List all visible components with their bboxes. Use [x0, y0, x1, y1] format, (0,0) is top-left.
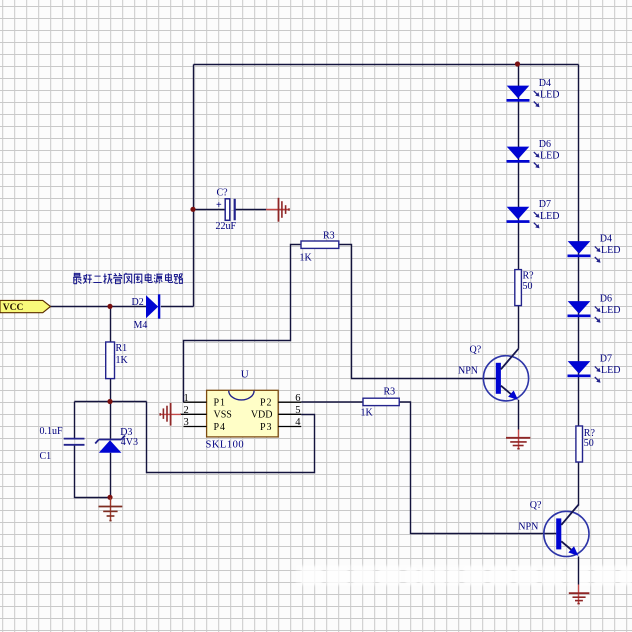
- capacitor C1 0.1uF: [40, 426, 85, 462]
- LED D6 (left string): [507, 139, 560, 168]
- svg-text:NPN: NPN: [518, 522, 538, 533]
- svg-text:1: 1: [184, 393, 189, 404]
- wire top horizontal net from C? node to LED strings: [194, 64, 579, 66]
- title text 最好二极管阀阈电源电路: [73, 273, 183, 284]
- svg-text:D7: D7: [600, 354, 612, 365]
- svg-text:VCC: VCC: [3, 303, 24, 313]
- transistor Q1 NPN: [458, 345, 529, 401]
- svg-text:NPN: NPN: [458, 366, 478, 377]
- svg-text:D2: D2: [132, 297, 144, 308]
- LED D4 (left string): [507, 78, 560, 107]
- svg-text:6: 6: [295, 393, 300, 404]
- svg-text:P3: P3: [260, 422, 273, 433]
- svg-text:U: U: [241, 368, 249, 380]
- junction dot node A (R1/D3/C1/VDD): [107, 399, 112, 404]
- resistor R3 (lower 1K at pin6): [361, 386, 400, 418]
- pin 4 (P3): [278, 426, 301, 428]
- svg-text:0.1uF: 0.1uF: [40, 426, 64, 437]
- svg-text:1K: 1K: [361, 408, 374, 419]
- resistor R? 50 (left string): [515, 270, 534, 306]
- wire pin6 to R3b left lead: [301, 401, 363, 403]
- svg-text:LED: LED: [601, 305, 620, 316]
- svg-text:SKL100: SKL100: [206, 440, 245, 451]
- wire VDD loop: node A down, right, up to pin 5: [147, 402, 315, 473]
- zener diode D3 4V3: [95, 427, 138, 453]
- wire VCC to D2 anode: [50, 306, 146, 308]
- wire R3b right lead down to Q2 base: [399, 402, 556, 534]
- ground (earth) below D3/C1 node: [99, 498, 123, 521]
- svg-text:R1: R1: [116, 343, 128, 354]
- svg-text:4V3: 4V3: [121, 437, 138, 448]
- wire left LED string vertical: [518, 65, 520, 270]
- svg-text:D7: D7: [539, 199, 551, 210]
- ground below Q1: [506, 430, 530, 449]
- LED D7 (right string): [568, 354, 621, 383]
- svg-text:D4: D4: [539, 78, 551, 89]
- svg-text:Q?: Q?: [530, 500, 542, 511]
- IC U SKL100: [180, 368, 301, 450]
- LED D7 (left string): [507, 199, 560, 228]
- svg-text:Q?: Q?: [470, 345, 482, 356]
- wire Q2 emitter down to ground: [578, 557, 580, 585]
- svg-text:R3: R3: [384, 386, 396, 397]
- wire capacitor C? left lead: [194, 209, 226, 211]
- svg-text:+: +: [216, 200, 222, 211]
- resistor R? 50 (right string): [576, 426, 596, 462]
- wire C1 top lead: [74, 402, 76, 439]
- port VCC: [0, 300, 51, 312]
- wire zener D3 bottom lead to ground node: [110, 453, 112, 498]
- svg-text:P2: P2: [260, 398, 273, 409]
- ground (power gnd) at C? right: [266, 198, 289, 222]
- svg-text:LED: LED: [601, 365, 620, 376]
- svg-text:LED: LED: [540, 90, 559, 101]
- svg-text:4: 4: [295, 417, 301, 428]
- junction dot ground node (C1/D3/GND): [107, 495, 112, 500]
- svg-text:LED: LED: [601, 245, 620, 256]
- pin 5 (VDD): [278, 413, 301, 415]
- watermark band: [296, 565, 632, 586]
- svg-text:5: 5: [295, 405, 300, 416]
- svg-text:22uF: 22uF: [216, 221, 237, 232]
- capacitor C? 22uF electrolytic: [216, 187, 237, 232]
- svg-text:P1: P1: [214, 398, 227, 409]
- svg-text:VSS: VSS: [214, 410, 232, 421]
- svg-text:R3: R3: [323, 230, 335, 241]
- resistor R1: [106, 342, 129, 379]
- LED D6 (right string): [568, 294, 621, 323]
- svg-text:VDD: VDD: [251, 410, 273, 421]
- svg-text:LED: LED: [540, 211, 559, 222]
- ground below Q2: [569, 585, 590, 604]
- wire VCC node down to R1: [110, 307, 112, 343]
- svg-text:D6: D6: [539, 139, 551, 150]
- transistor Q2 NPN: [518, 500, 589, 556]
- pin 3 (P4): [184, 426, 207, 428]
- wire pin1 up and over to R3 left lead: [184, 245, 302, 403]
- ground (VSS red) at pin 2: [160, 403, 181, 426]
- svg-text:R?: R?: [523, 270, 535, 281]
- svg-text:1K: 1K: [116, 355, 129, 366]
- svg-text:3: 3: [184, 417, 189, 428]
- svg-text:D6: D6: [600, 294, 612, 305]
- svg-text:D4: D4: [600, 234, 612, 245]
- diode D2: [132, 294, 161, 331]
- junction dot LED string top: [515, 61, 520, 66]
- wire left R?50 bottom to Q1 collector: [518, 306, 520, 349]
- wire right R?50 bottom to Q2 collector: [578, 462, 580, 506]
- wire capacitor C? right lead to ground: [236, 209, 267, 211]
- wire zener D3 top lead: [110, 402, 112, 439]
- wire D2 cathode to x=193 vertical: [161, 306, 194, 308]
- wire R1 bottom to node A: [110, 379, 112, 402]
- svg-text:C?: C?: [217, 187, 229, 198]
- wire R3 right lead down to Q1 base: [339, 245, 496, 379]
- svg-text:50: 50: [523, 281, 533, 292]
- LED D4 (right string): [568, 234, 621, 263]
- wire right LED string vertical: [578, 65, 580, 427]
- svg-text:50: 50: [584, 438, 594, 449]
- junction dot at VCC/R1/D2 node: [107, 304, 112, 309]
- pin 6 (P2): [278, 401, 301, 403]
- wire C1 bottom lead and return to ground node: [75, 445, 111, 497]
- wire left vertical x=193 from top wire down to VCC/D2 line: [193, 65, 195, 307]
- pin 1 (P1): [184, 401, 207, 403]
- resistor R3 (upper 1K): [300, 230, 339, 263]
- svg-text:C1: C1: [40, 451, 52, 462]
- svg-text:1K: 1K: [300, 252, 313, 263]
- pin 2 (VSS): [180, 413, 207, 415]
- svg-text:P4: P4: [214, 422, 227, 433]
- svg-text:M4: M4: [134, 320, 148, 331]
- svg-text:2: 2: [184, 405, 189, 416]
- junction dot at C? node: [190, 207, 195, 212]
- wire Q1 emitter down to ground: [518, 400, 520, 430]
- wire node A horizontal to C1 and VDD branch: [75, 401, 147, 403]
- svg-text:LED: LED: [540, 151, 559, 162]
